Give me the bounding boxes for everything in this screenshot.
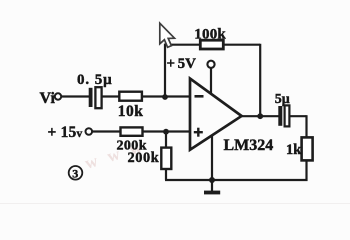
wire R 10k to op-amp inverting input (node A) xyxy=(142,95,191,97)
wire top rail right segment xyxy=(223,44,260,46)
capacitor C1 0.5u left plate xyxy=(89,88,93,107)
svg-text:+ 15v: + 15v xyxy=(48,124,83,141)
wire op-amp ground pin down to bottom rail xyxy=(211,133,213,180)
wire right vertical into R 1k xyxy=(305,115,307,138)
op-amp U1 LM324 triangle xyxy=(190,79,242,150)
wire node B down to vertical R 200k xyxy=(165,132,167,149)
wire top rail left segment xyxy=(164,44,201,46)
op-amp non-inverting input plus sign xyxy=(194,128,203,137)
wire vertical R 200k to bottom rail xyxy=(165,169,167,181)
circled figure number 3 xyxy=(69,166,83,180)
wire R 1k to bottom rail xyxy=(305,160,307,182)
ground node junction dot xyxy=(209,177,215,183)
terminal +5V xyxy=(207,61,214,68)
wire ground stub xyxy=(211,180,213,191)
svg-text:0. 5μ: 0. 5μ xyxy=(77,72,113,88)
resistor 1k body xyxy=(302,137,313,160)
svg-text:1k: 1k xyxy=(286,142,302,158)
svg-text:Vi: Vi xyxy=(40,90,56,107)
wire C2 to right corner xyxy=(289,115,307,117)
resistor 200k vertical body xyxy=(161,148,171,169)
op-amp inverting input minus sign xyxy=(195,95,204,98)
node B junction dot xyxy=(163,129,169,135)
capacitor C1 0.5u right plate xyxy=(95,87,101,108)
resistor 100k body xyxy=(200,40,223,49)
output node junction dot xyxy=(257,113,263,119)
terminal Vi xyxy=(55,93,61,99)
svg-text:5μ: 5μ xyxy=(275,92,290,107)
wire R 200k to op-amp non-inverting input (node B) xyxy=(142,130,190,132)
svg-text:3: 3 xyxy=(72,167,78,181)
svg-text:200k: 200k xyxy=(128,150,160,166)
svg-text:LM324: LM324 xyxy=(224,137,274,154)
wire +15v to R 200k xyxy=(92,130,121,132)
wire bottom rail xyxy=(165,179,308,181)
watermark xyxy=(83,134,156,174)
resistor 10k body xyxy=(119,92,142,101)
capacitor C2 5u right plate xyxy=(285,105,290,126)
terminal +15v xyxy=(86,128,93,135)
resistor 200k horizontal body xyxy=(121,127,143,135)
ground symbol bar xyxy=(204,191,220,195)
svg-text:10k: 10k xyxy=(118,103,144,120)
wire feedback right vertical down to output xyxy=(259,44,261,117)
wire C1 to R 10k xyxy=(102,95,120,97)
wire V+ pin stub from +5V terminal to op-amp xyxy=(210,68,212,95)
faint scan line xyxy=(0,203,350,204)
svg-text:+5V: +5V xyxy=(167,56,197,72)
wire output to C2 xyxy=(240,115,279,117)
mouse cursor xyxy=(160,23,175,47)
wire Vi to C1 xyxy=(61,95,89,97)
capacitor C2 5u left plate xyxy=(278,106,282,126)
node A junction dot xyxy=(162,94,168,100)
svg-text:100k: 100k xyxy=(194,26,226,42)
wire feedback left vertical (node A up to top rail) xyxy=(164,44,166,97)
